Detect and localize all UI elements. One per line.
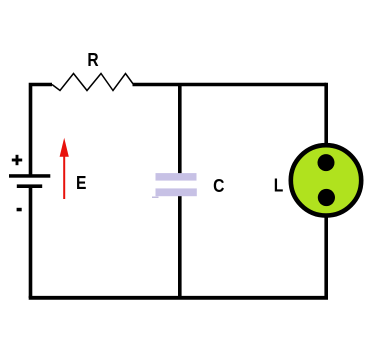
wire: left vertical lower (battery to bottom-left corner): [29, 188, 33, 298]
lamp L: bulb circle: [291, 145, 361, 215]
lamp L: bottom contact dot: [318, 189, 335, 206]
svg-text:L: L: [274, 174, 284, 196]
arrow: red EMF direction arrow: [63, 154, 65, 199]
wire: bottom wire: [29, 296, 328, 300]
svg-text:R: R: [87, 49, 99, 71]
wire: middle branch upper (top wire down to capacitor): [178, 83, 182, 174]
wire: middle branch lower (capacitor to bottom wire): [178, 196, 182, 298]
wire: right vertical lower (lamp bottom contact to bottom-right corner): [324, 198, 328, 300]
label + (battery positive): [12, 159, 22, 162]
battery E: negative plate (short bar): [17, 184, 42, 188]
wire: left vertical upper segment with top-left corner and lead to resistor: [31, 85, 53, 176]
svg-text:C: C: [213, 174, 224, 196]
wire: right vertical upper (corner down into lamp to top contact): [324, 83, 328, 163]
capacitor C: top plate: [156, 173, 197, 181]
capacitor C: bottom plate: [156, 188, 197, 196]
battery E: positive plate (long bar): [9, 174, 50, 178]
svg-text:E: E: [76, 172, 86, 194]
lamp L: top contact dot: [318, 154, 335, 171]
capacitor stray mark: [152, 197, 159, 198]
resistor R (zigzag body): [52, 74, 134, 91]
label - (battery negative): [17, 208, 22, 212]
wire: top wire from resistor to top-right corner: [133, 83, 327, 87]
